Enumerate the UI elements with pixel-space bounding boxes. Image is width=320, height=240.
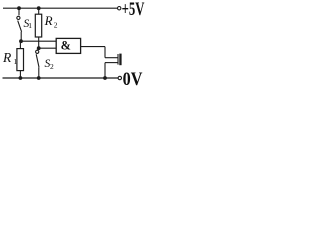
- wire R1 to bottom rail: [19, 71, 21, 78]
- switch S2 lever: [36, 54, 39, 67]
- svg-text:1: 1: [28, 21, 32, 30]
- wire stub from top rail to S1: [18, 8, 20, 15]
- svg-text:1: 1: [14, 57, 18, 66]
- wire buzzer return down to rail: [104, 63, 106, 78]
- wire bottom 0V rail: [3, 77, 119, 79]
- wire AND output: [81, 46, 105, 48]
- svg-text:+5V: +5V: [122, 0, 145, 20]
- svg-text:R: R: [44, 13, 53, 28]
- node D junction dot (R2/S2/input2): [37, 46, 41, 50]
- wire node B down to R1: [19, 41, 21, 48]
- node B junction dot (S1/R1/input1): [19, 39, 23, 43]
- junction dot S2/0V rail: [37, 76, 41, 80]
- AND gate U1 box: [56, 38, 80, 53]
- junction dot R1/0V rail: [19, 76, 23, 80]
- svg-text:&: &: [61, 39, 71, 53]
- node junction dot top-left (S1 branch): [17, 6, 21, 10]
- wire buzzer top lead: [105, 57, 118, 59]
- switch S1 lever: [18, 21, 22, 32]
- wire input 1 to AND gate: [21, 40, 56, 42]
- terminal +5V open circle: [118, 7, 121, 10]
- wire output corner down: [104, 47, 106, 58]
- wire buzzer bottom lead: [105, 62, 118, 64]
- switch S1 contact circle: [17, 16, 20, 19]
- switch S2 contact circle: [36, 50, 39, 53]
- svg-text:2: 2: [50, 62, 54, 71]
- buzzer plate thick bar: [119, 54, 121, 66]
- wire stub S2 to bottom rail: [38, 67, 40, 78]
- wire R2 down to node D (crosses input1 wire): [38, 37, 40, 48]
- svg-text:0V: 0V: [123, 69, 143, 88]
- resistor R2 box: [35, 14, 41, 37]
- wire stub S1 to node B: [20, 32, 22, 41]
- node junction dot top (R2 branch): [37, 6, 41, 10]
- svg-text:2: 2: [54, 21, 58, 30]
- buzzer plate thin bar: [117, 54, 119, 65]
- wire top +5V rail: [3, 7, 117, 9]
- resistor R1 box: [17, 49, 24, 71]
- svg-text:R: R: [2, 50, 12, 65]
- wire stub top rail to R2: [38, 8, 40, 14]
- wire input 2 to AND gate: [39, 47, 57, 49]
- junction dot output/0V rail: [103, 76, 107, 80]
- terminal 0V open circle: [118, 76, 121, 79]
